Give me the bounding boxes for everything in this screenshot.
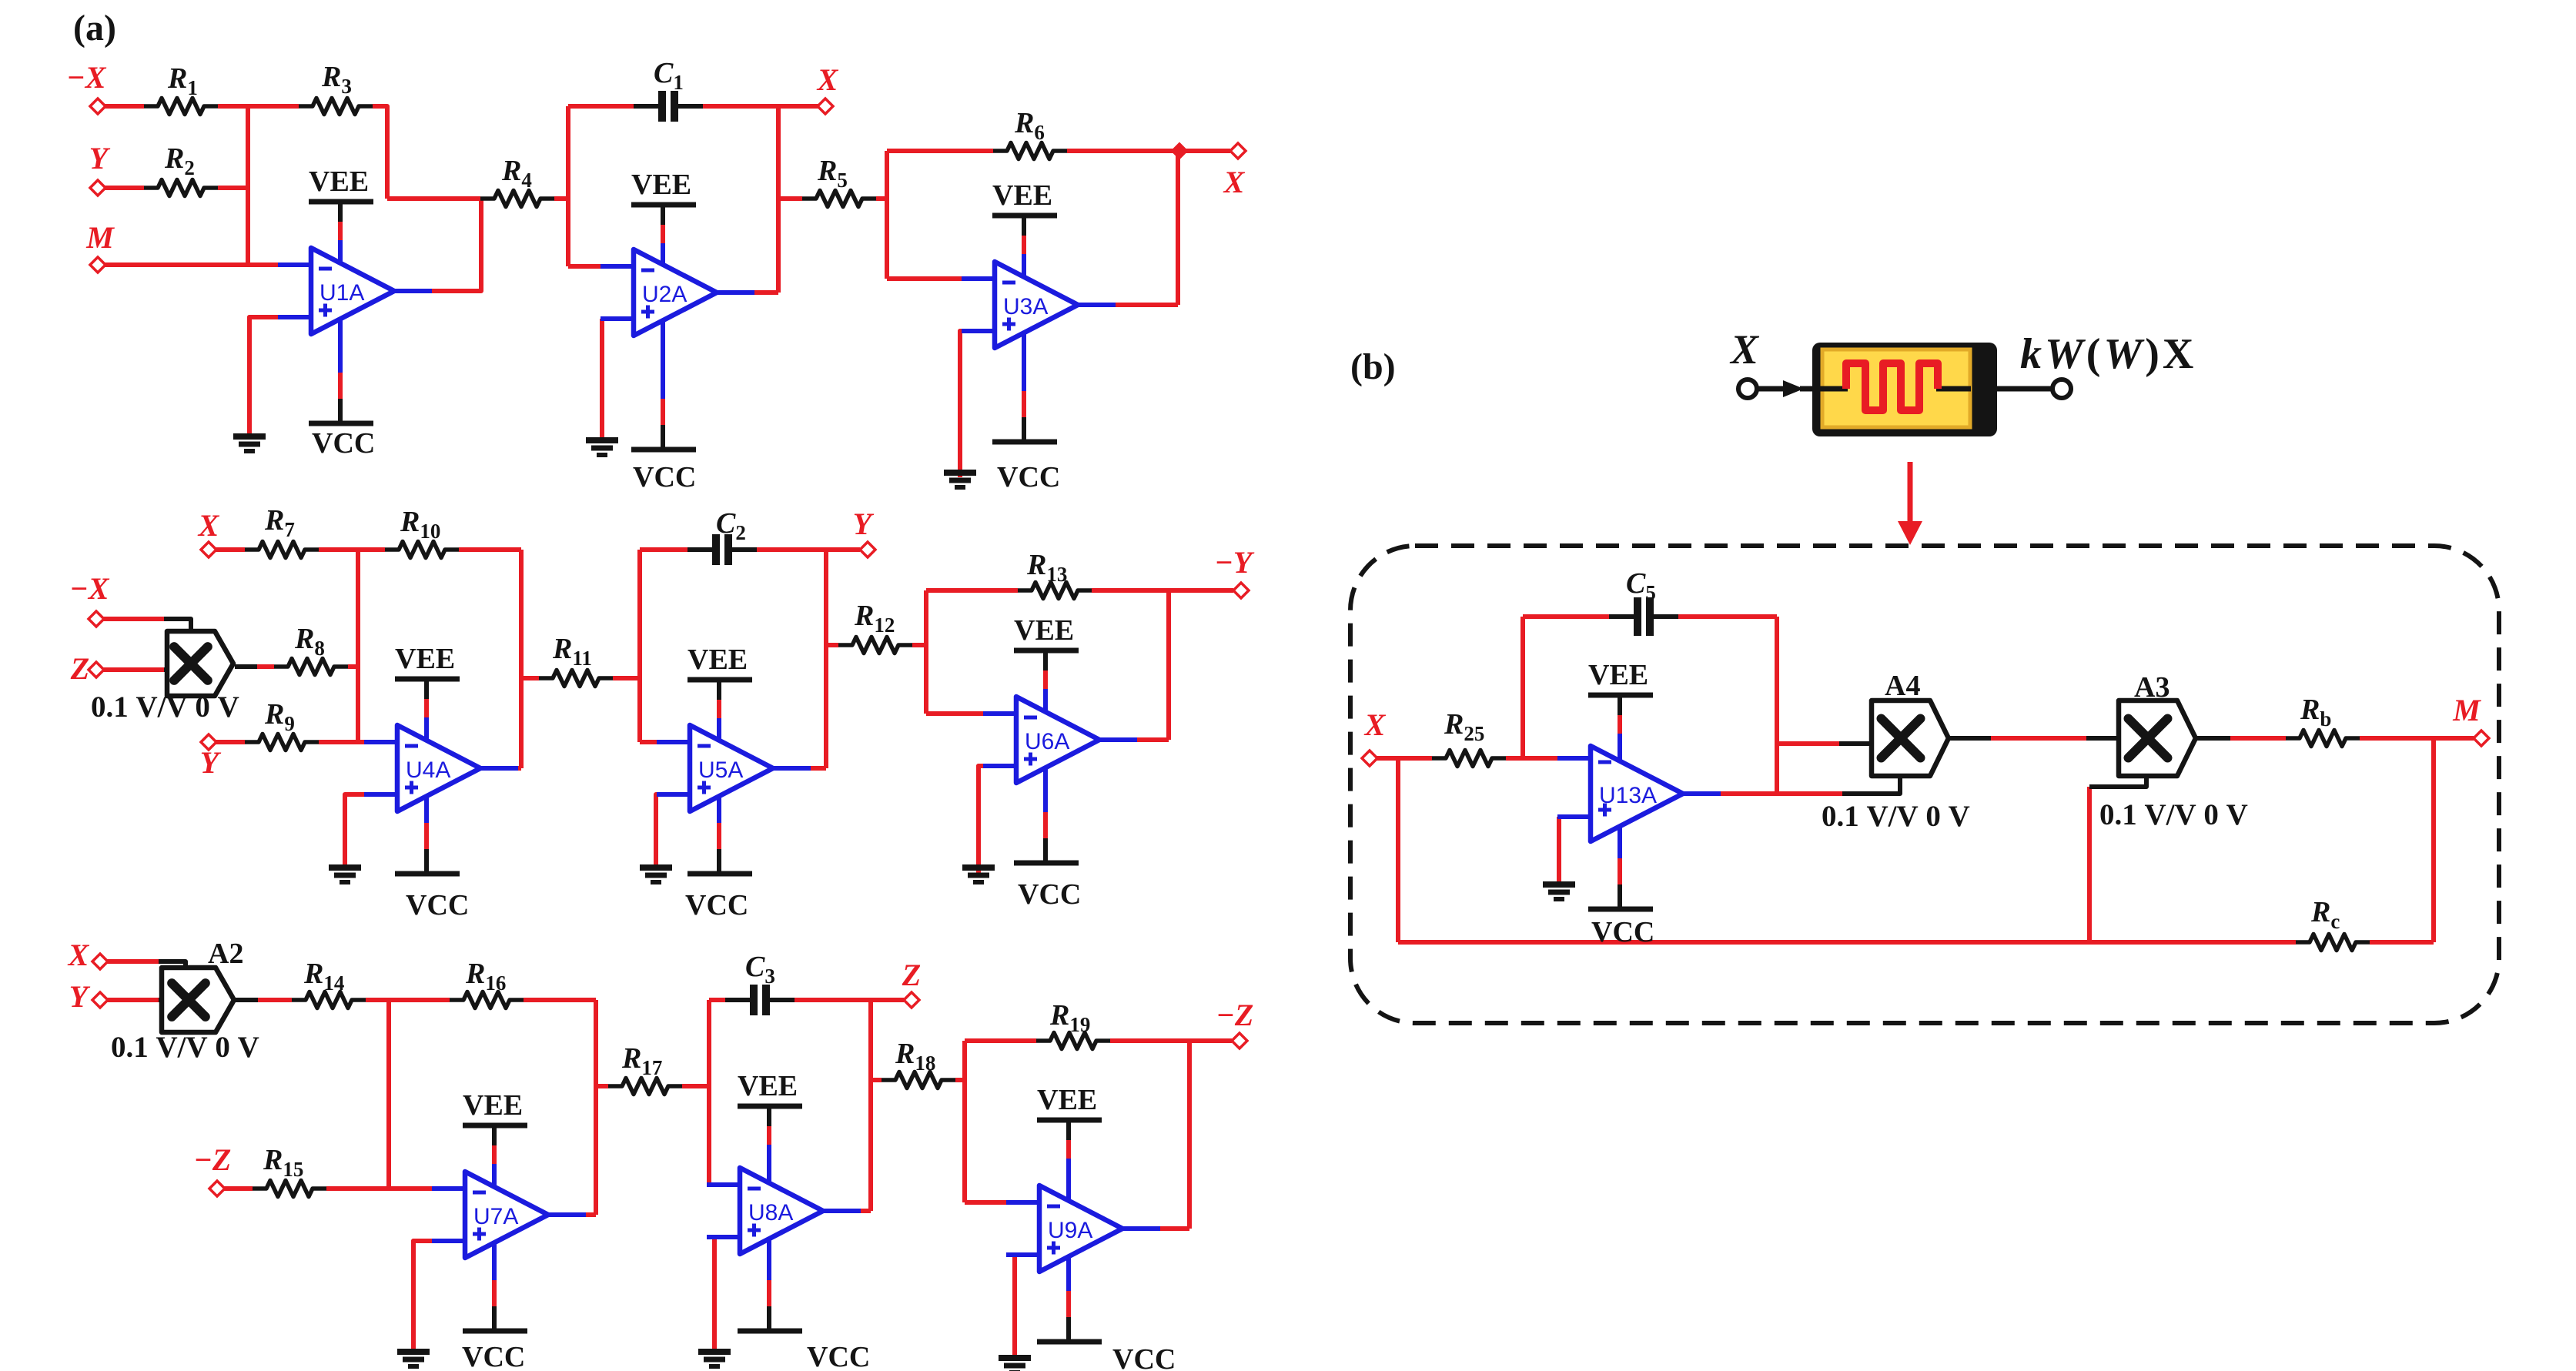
svg-text:−X: −X <box>67 60 107 95</box>
svg-text:X: X <box>1223 165 1246 199</box>
svg-text:U1A: U1A <box>319 280 364 306</box>
svg-text:VEE: VEE <box>1037 1084 1097 1116</box>
svg-text:VEE: VEE <box>395 643 455 675</box>
svg-text:VCC: VCC <box>1591 916 1654 948</box>
svg-text:kW(W)X: kW(W)X <box>2020 330 2196 378</box>
svg-text:U2A: U2A <box>642 282 687 307</box>
svg-text:VCC: VCC <box>406 889 469 921</box>
svg-text:Z: Z <box>902 958 921 992</box>
svg-text:U6A: U6A <box>1025 729 1069 754</box>
svg-text:U9A: U9A <box>1048 1218 1092 1243</box>
svg-text:VCC: VCC <box>1112 1343 1176 1371</box>
svg-text:VCC: VCC <box>997 461 1060 493</box>
svg-text:0.1 V/V 0 V: 0.1 V/V 0 V <box>111 1031 259 1064</box>
svg-text:−X: −X <box>70 571 110 606</box>
svg-text:VEE: VEE <box>631 169 691 201</box>
svg-text:Y: Y <box>89 141 111 176</box>
svg-text:VCC: VCC <box>312 427 375 460</box>
svg-text:U8A: U8A <box>748 1200 793 1226</box>
svg-text:0.1 V/V 0 V: 0.1 V/V 0 V <box>1822 800 1970 833</box>
svg-text:VEE: VEE <box>687 644 748 676</box>
svg-text:0.1 V/V 0 V: 0.1 V/V 0 V <box>91 691 239 724</box>
svg-text:X: X <box>1729 326 1760 373</box>
svg-text:Y: Y <box>853 507 875 541</box>
svg-text:X: X <box>1363 707 1387 742</box>
svg-text:M: M <box>85 220 115 255</box>
svg-text:X: X <box>197 508 220 543</box>
svg-text:VCC: VCC <box>1018 878 1081 911</box>
svg-text:VEE: VEE <box>738 1070 798 1102</box>
svg-text:A3: A3 <box>2134 671 2170 704</box>
svg-text:U4A: U4A <box>406 757 450 783</box>
svg-text:X: X <box>67 938 90 972</box>
svg-text:VEE: VEE <box>309 166 369 198</box>
svg-text:VCC: VCC <box>633 461 696 493</box>
svg-text:VCC: VCC <box>807 1341 870 1371</box>
svg-text:VEE: VEE <box>1014 614 1074 647</box>
svg-text:VCC: VCC <box>462 1341 525 1371</box>
svg-text:X: X <box>816 62 839 97</box>
svg-text:−Y: −Y <box>1215 545 1255 580</box>
svg-text:−Z: −Z <box>194 1142 232 1177</box>
svg-text:(a): (a) <box>73 8 116 48</box>
svg-text:VEE: VEE <box>1588 659 1648 691</box>
svg-text:U5A: U5A <box>698 757 743 783</box>
svg-text:M: M <box>2452 693 2481 727</box>
svg-text:Z: Z <box>70 651 89 686</box>
svg-text:A2: A2 <box>208 938 243 970</box>
svg-text:0.1 V/V 0 V: 0.1 V/V 0 V <box>2099 798 2248 831</box>
svg-text:Y: Y <box>200 745 222 780</box>
svg-text:−Z: −Z <box>1216 998 1254 1032</box>
svg-text:VEE: VEE <box>992 179 1052 212</box>
svg-text:(b): (b) <box>1350 346 1396 387</box>
svg-text:U13A: U13A <box>1599 783 1657 808</box>
svg-text:Y: Y <box>69 979 91 1014</box>
svg-text:A4: A4 <box>1885 670 1920 702</box>
svg-text:U3A: U3A <box>1003 294 1048 319</box>
svg-text:U7A: U7A <box>473 1204 518 1229</box>
svg-text:VEE: VEE <box>463 1089 523 1122</box>
svg-text:VCC: VCC <box>685 889 748 921</box>
